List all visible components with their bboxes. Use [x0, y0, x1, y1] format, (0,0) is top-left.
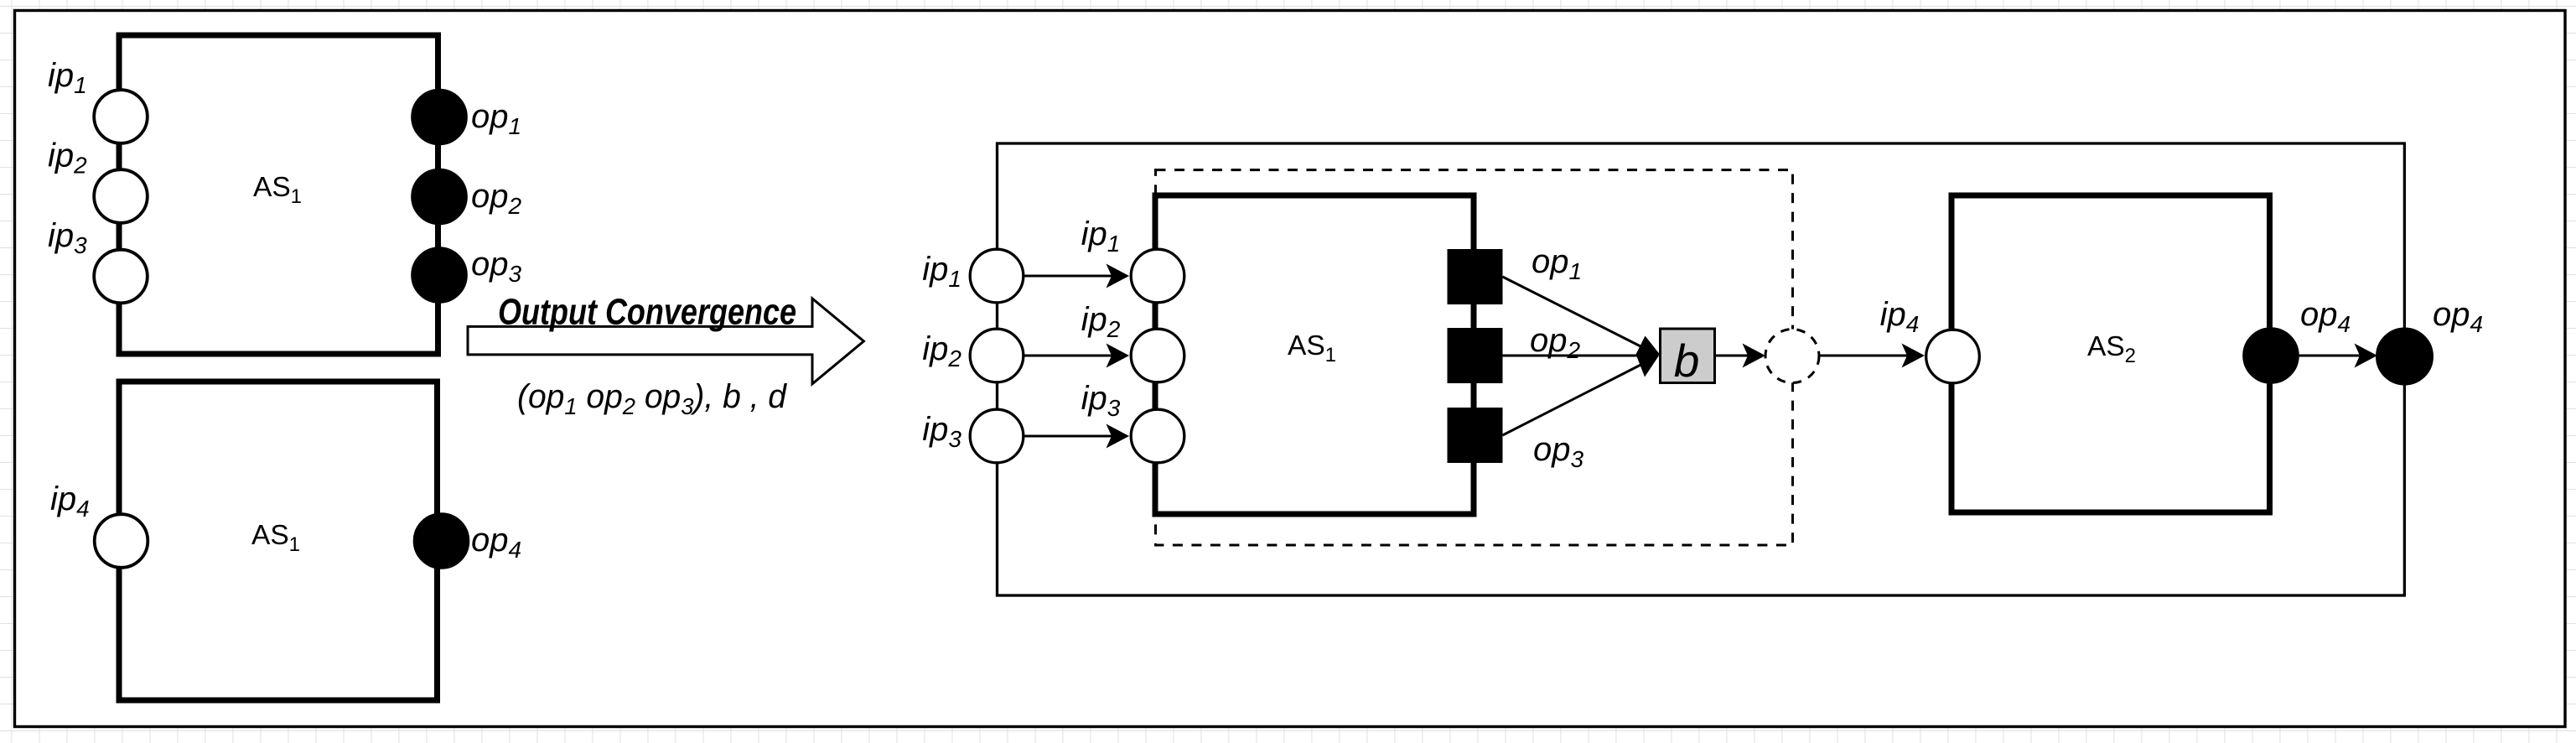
input node ip2 (white circle on container edge)	[970, 329, 1024, 382]
port AS1.ip2 (white circle)	[1131, 329, 1184, 382]
wire ip1 -> AS1.ip1	[1024, 275, 1112, 278]
port AS1.ip3 (white circle)	[1131, 409, 1184, 463]
wire ip3 -> AS1.ip3	[1024, 435, 1112, 438]
input node ip3 (white circle on container edge)	[970, 409, 1024, 463]
big outline arrow	[468, 299, 863, 384]
wire delay node -> AS2.ip4	[1821, 355, 1910, 357]
port op1 (black circle)	[412, 90, 467, 144]
port AS2.op4 (black circle)	[2244, 329, 2299, 383]
wire AS2.op4 -> output node	[2298, 355, 2362, 357]
wire op1 -> b	[1503, 277, 1651, 351]
svg-text:b: b	[1674, 335, 1700, 387]
port op3 (black circle)	[412, 248, 467, 303]
buffer b (grey box)	[1661, 329, 1715, 383]
port AS1.ip1 (white circle)	[1131, 249, 1184, 303]
dashed scope box	[1156, 170, 1793, 545]
svg-text:(op1 op2 op3), b , d: (op1 op2 op3), b , d	[517, 378, 788, 419]
box AS1 (top-left)	[119, 35, 438, 354]
svg-text:Output Convergence: Output Convergence	[498, 292, 796, 333]
port AS1.op1 (black square)	[1448, 249, 1503, 304]
box AS1 (right)	[1155, 195, 1474, 514]
wire b -> delay node	[1715, 355, 1750, 357]
port ip2 (white circle)	[94, 169, 148, 223]
port op2 (black circle)	[412, 169, 467, 224]
merged arrowhead into b	[1636, 336, 1661, 377]
container box (thin)	[998, 143, 2405, 595]
wire op3 -> b	[1503, 360, 1651, 435]
output node op4 (black circle on container edge)	[2377, 329, 2433, 384]
box AS2	[1951, 195, 2270, 512]
port AS1.op2 (black square)	[1448, 328, 1503, 383]
input node ip1 (white circle on container edge)	[970, 249, 1024, 303]
port AS1.op3 (black square)	[1448, 408, 1503, 463]
box AS1 (bottom-left)	[119, 382, 438, 700]
port ip1 (white circle)	[94, 90, 148, 143]
wire op2 -> b	[1503, 355, 1644, 357]
wire ip2 -> AS1.ip2	[1024, 355, 1112, 357]
port AS2.ip4 (white circle)	[1926, 330, 1980, 383]
port ip3 (white circle)	[94, 250, 148, 304]
port op4 (black circle)	[414, 514, 469, 569]
port ip4 (white circle)	[95, 514, 148, 568]
delay node d (dashed circle)	[1765, 330, 1819, 383]
